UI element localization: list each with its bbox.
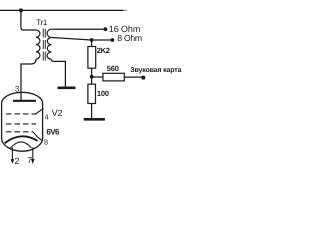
tube V2 envelope [2, 92, 43, 151]
svg-text:8: 8 [44, 138, 48, 147]
transformer Tr1 primary winding [36, 30, 40, 59]
resistor 100 [88, 84, 96, 103]
tube beam plate line [6, 131, 33, 133]
ground secondary [58, 87, 76, 90]
node sound card terminal [141, 76, 145, 80]
tube anode plate [13, 100, 36, 102]
svg-text:4: 4 [45, 112, 49, 121]
pin 8 stub [33, 132, 42, 140]
svg-text:2K2: 2K2 [97, 46, 110, 55]
resistor 2K2 [88, 47, 96, 69]
node 8 Ohm terminal [111, 38, 115, 42]
ground under resistor 100 [84, 118, 105, 121]
wire B+ top rail [0, 9, 124, 11]
svg-text:8 Ohm: 8 Ohm [117, 33, 142, 43]
node 16 Ohm terminal [104, 27, 108, 31]
heater lead pin 7 [32, 147, 34, 159]
wire junction to 2K2 top [91, 40, 93, 47]
svg-text:Tr1: Tr1 [36, 18, 48, 27]
svg-text:Звуковая карта: Звуковая карта [130, 67, 181, 74]
tube heater [10, 142, 31, 148]
wire from junction to transformer primary top [21, 10, 36, 30]
pin 4 stub [36, 109, 44, 114]
node top junction [19, 8, 23, 12]
svg-text:2: 2 [14, 156, 19, 166]
tube grid g2 (pin 4) [6, 113, 36, 115]
heater lead pin 2 [11, 148, 13, 160]
wire divider node to 100 [91, 79, 93, 85]
transformer Tr1 core [43, 29, 45, 62]
transformer Tr1 secondary winding (tap after first arc) [47, 29, 51, 59]
wire divider node to 560 [92, 76, 103, 78]
wire primary bottom to tube anode pin 3 [21, 59, 36, 100]
svg-text:3: 3 [15, 84, 20, 93]
tube cathode [5, 136, 38, 143]
resistor 560 [103, 73, 124, 81]
svg-text:100: 100 [97, 89, 109, 98]
node junction of tap line and R 2K2 [90, 38, 94, 42]
wire secondary tap to 8 Ohm terminal [51, 38, 111, 41]
svg-text:560: 560 [107, 64, 119, 73]
node divider junction [90, 75, 94, 79]
svg-text:6V6: 6V6 [46, 128, 60, 137]
tube grid g1 [6, 123, 36, 125]
wire secondary top to 16 Ohm terminal [51, 28, 104, 30]
wire 560 to sound-card terminal [124, 76, 142, 78]
wire 2K2 bottom to divider node [91, 68, 93, 77]
wire secondary bottom to ground [51, 59, 65, 86]
svg-text:7: 7 [27, 155, 32, 165]
svg-text:V2: V2 [52, 108, 63, 118]
wire 100 bottom to ground [91, 104, 93, 119]
